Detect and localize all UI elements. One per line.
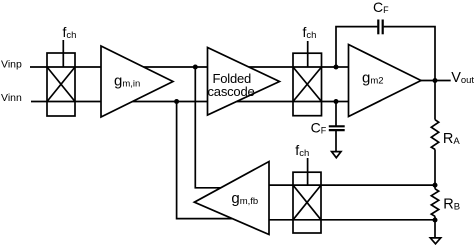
node Vout junction [433, 78, 438, 83]
node C junction [334, 65, 339, 70]
resistor RA [431, 120, 438, 150]
op-amp gm2 [349, 45, 422, 117]
wire Vout node down to resistor RA [434, 81, 436, 120]
capacitor CF2 plates [329, 126, 345, 130]
svg-text:RB: RB [443, 197, 460, 213]
wire node E to resistor RB [434, 185, 436, 189]
wire fch drive to chopper CH3 [307, 158, 309, 185]
capacitor CF top plates [378, 20, 382, 35]
node A junction [193, 65, 198, 70]
svg-text:Vinp: Vinp [1, 59, 22, 71]
chopper CH3 [293, 172, 321, 233]
wire node D to gm2 bottom input [336, 101, 349, 103]
svg-text:fch: fch [63, 24, 77, 41]
op-amp gm,fb [194, 162, 269, 235]
wire CF2 bottom plate to ground [335, 130, 337, 152]
wire node F feedback to chopper CH3 lower [269, 219, 435, 221]
ground under CF2 [332, 152, 341, 158]
node E junction [433, 183, 438, 188]
wire node C to gm2 top input [336, 66, 349, 68]
wire gm2 output to Vout [421, 80, 451, 82]
ground under RB [430, 238, 440, 244]
op-amp folded cascode [208, 48, 280, 116]
node D junction [334, 99, 339, 104]
svg-text:CF: CF [373, 0, 389, 15]
wire Vinp input to node A [30, 66, 195, 68]
wire Vinn input to node B [31, 101, 177, 103]
svg-text:RA: RA [443, 131, 460, 147]
op-amp gm,in [101, 46, 173, 117]
svg-text:CF: CF [311, 119, 327, 135]
node F junction [433, 218, 438, 223]
wire node B to node D (gm2 input bottom) [177, 101, 336, 103]
wire CF top right plate to Vout node [384, 27, 435, 81]
svg-text:fch: fch [295, 142, 309, 159]
resistor RB [431, 189, 438, 217]
wire node F down to ground [434, 220, 436, 238]
svg-text:Vout: Vout [451, 70, 474, 86]
wire node C up to CF top left plate [336, 27, 377, 67]
wire node A to node C (gm2 input top) [195, 66, 336, 68]
wire node B down to gm,fb lower output [177, 102, 238, 219]
wire RB to node F [434, 216, 436, 220]
chopper CH2 [293, 53, 322, 115]
wire node E feedback to chopper CH3 upper [269, 184, 435, 186]
wire node A down to gm,fb upper output [195, 67, 226, 188]
wire RA to node E [434, 149, 436, 185]
svg-text:Vinn: Vinn [1, 92, 22, 104]
svg-text:fch: fch [303, 24, 317, 41]
wire node D down to CF2 top plate [335, 102, 337, 127]
wire fch drive to chopper CH2 [307, 41, 309, 67]
wire fch drive to chopper CH1 [62, 40, 64, 67]
chopper CH1 [47, 53, 75, 116]
node B junction [174, 99, 179, 104]
svg-text:cascode: cascode [207, 84, 254, 99]
